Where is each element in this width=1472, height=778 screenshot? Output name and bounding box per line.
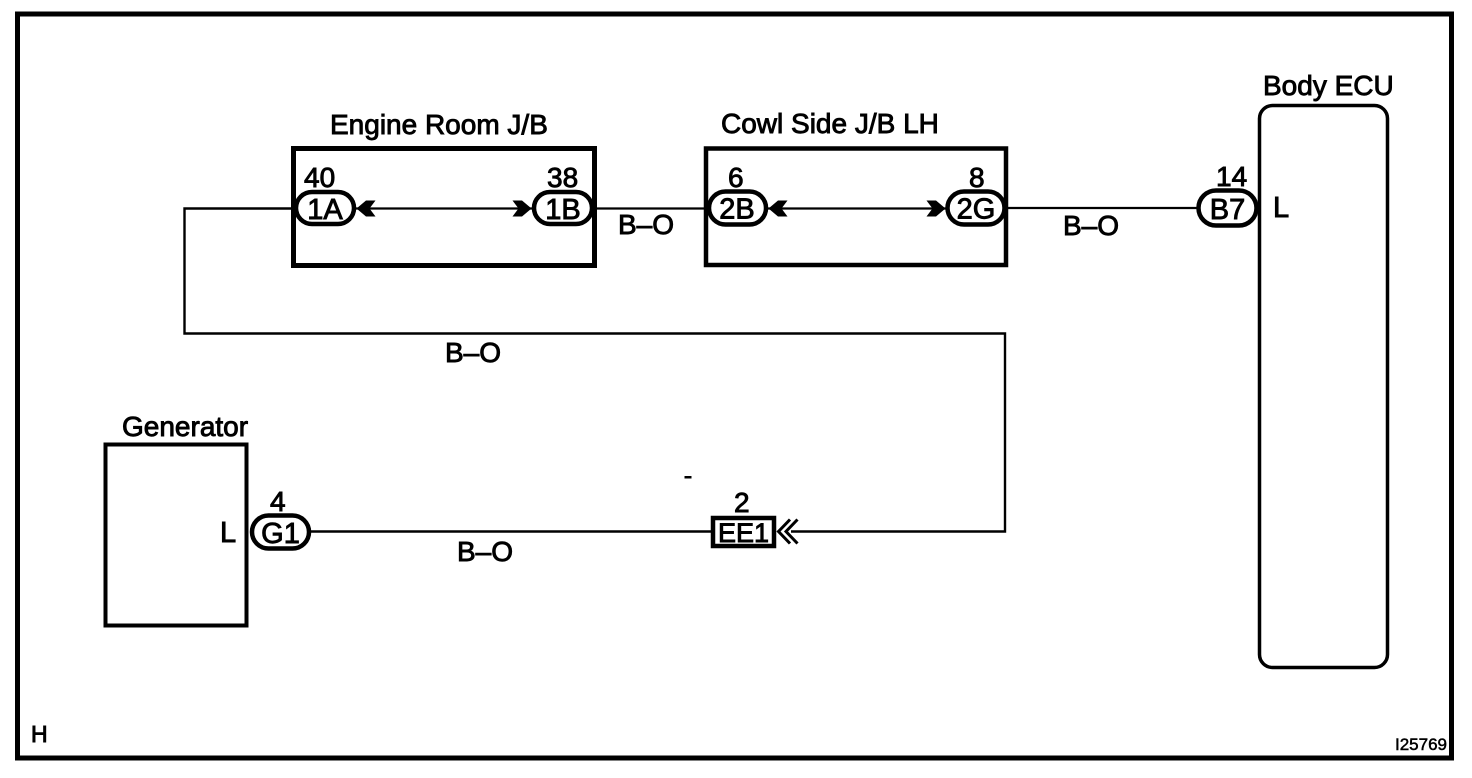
svg-text:1B: 1B bbox=[545, 194, 580, 226]
wire: Cowl Side J/B to B7 bbox=[1006, 207, 1198, 209]
svg-text:H: H bbox=[31, 721, 48, 747]
Body ECU box bbox=[1260, 70, 1394, 668]
svg-text:B–O: B–O bbox=[457, 536, 513, 567]
arrow into 1A bbox=[357, 201, 376, 217]
wire: G1 to EE1 bbox=[311, 530, 711, 532]
svg-text:L: L bbox=[1273, 192, 1289, 224]
svg-text:G1: G1 bbox=[261, 518, 300, 550]
wire: inside Cowl Side J/B between 2B and 2G bbox=[768, 207, 946, 209]
svg-text:B–O: B–O bbox=[445, 337, 501, 368]
svg-text:8: 8 bbox=[969, 162, 985, 193]
connector G1 bbox=[252, 486, 309, 550]
svg-text:Engine Room J/B: Engine Room J/B bbox=[330, 109, 548, 140]
connector 2B bbox=[709, 162, 766, 226]
connector 2G bbox=[948, 162, 1005, 226]
arrow into 1B bbox=[513, 201, 532, 217]
svg-text:B–O: B–O bbox=[1063, 210, 1119, 241]
connector B7 bbox=[1199, 161, 1257, 226]
Generator box bbox=[106, 411, 249, 626]
connector 1B bbox=[534, 162, 592, 226]
wire: from 1A left, down, and across to right bbox=[185, 209, 1006, 532]
chevron marks at EE1 bbox=[779, 520, 791, 544]
svg-text:B–O: B–O bbox=[618, 209, 674, 240]
svg-text:EE1: EE1 bbox=[718, 518, 769, 548]
svg-text:2: 2 bbox=[734, 487, 750, 518]
svg-text:40: 40 bbox=[304, 162, 335, 193]
arrow into 2G bbox=[927, 201, 946, 217]
wire: Engine Room J/B to Cowl Side J/B bbox=[595, 207, 707, 209]
svg-text:2G: 2G bbox=[957, 194, 996, 226]
svg-text:38: 38 bbox=[547, 162, 578, 193]
svg-text:I25769: I25769 bbox=[1395, 735, 1447, 754]
stray mark bbox=[685, 476, 692, 479]
svg-text:Body ECU: Body ECU bbox=[1263, 70, 1394, 101]
junction connector EE1 bbox=[713, 487, 774, 548]
svg-text:L: L bbox=[220, 517, 236, 549]
svg-text:14: 14 bbox=[1216, 161, 1247, 192]
Cowl Side J/B LH box bbox=[706, 108, 1006, 265]
svg-text:1A: 1A bbox=[307, 194, 343, 226]
connector 1A bbox=[296, 162, 354, 226]
Engine Room J/B box bbox=[294, 109, 595, 266]
svg-text:Cowl Side J/B LH: Cowl Side J/B LH bbox=[721, 108, 939, 139]
wire: inside Engine Room J/B between 1A and 1B bbox=[356, 207, 532, 209]
arrow into 2B bbox=[769, 201, 788, 217]
svg-text:B7: B7 bbox=[1210, 194, 1245, 226]
svg-text:4: 4 bbox=[270, 486, 286, 517]
svg-text:6: 6 bbox=[728, 162, 744, 193]
svg-text:Generator: Generator bbox=[122, 411, 248, 442]
svg-text:2B: 2B bbox=[719, 194, 754, 226]
